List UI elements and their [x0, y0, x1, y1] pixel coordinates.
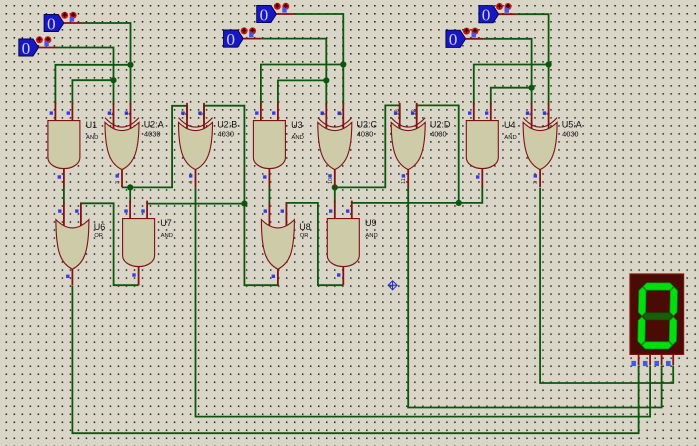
svg-text:U2:B: U2:B: [217, 120, 237, 130]
XOR gate U2:C (4030): [318, 103, 352, 187]
wire branch net C to U3.in1: [261, 65, 343, 105]
pin markers U9: [329, 209, 349, 276]
svg-text:2: 2: [108, 112, 114, 115]
pin markers U5:A: [526, 111, 546, 177]
svg-text:0: 0: [482, 6, 491, 25]
svg-text:U1: U1: [86, 120, 98, 130]
svg-text:8: 8: [338, 112, 344, 115]
svg-text:10: 10: [328, 178, 334, 184]
svg-text:AND: AND: [504, 135, 516, 141]
svg-text:4030: 4030: [218, 130, 234, 139]
logic input I5 (state 0) with toggle buttons: [479, 3, 517, 25]
AND gate U1: [48, 103, 80, 188]
wire branch U2:C output down to U9.in1: [334, 187, 336, 202]
junction net C: [340, 61, 346, 67]
pin markers U2:D: [394, 111, 414, 177]
svg-text:0: 0: [47, 14, 56, 33]
AND gate U4: [466, 103, 498, 188]
svg-text:U2:D: U2:D: [430, 120, 451, 130]
svg-text:U5:A: U5:A: [562, 120, 582, 130]
svg-text:4: 4: [189, 181, 195, 184]
junction U4 output net: [456, 200, 462, 206]
wire U2:C output to U2:D.in1: [335, 105, 400, 187]
wire U3 output to U8.in1: [268, 187, 270, 205]
svg-text:12: 12: [412, 109, 418, 115]
junction net A: [127, 62, 133, 68]
pin markers U4: [468, 111, 488, 178]
pin numbers 2,1,3 of U5:A: [526, 112, 549, 184]
display pins: [639, 354, 674, 365]
junction U2:A output: [127, 184, 133, 190]
junction net E: [546, 61, 552, 67]
svg-text:1: 1: [125, 112, 131, 115]
wire net E (input to U4 and U5:A): [517, 14, 549, 104]
wire branch U2:A output down to U7.in1: [129, 187, 131, 202]
wire U2:B output to display pin 2: [196, 187, 651, 416]
svg-text:AND: AND: [365, 233, 377, 239]
svg-text:4030: 4030: [430, 130, 446, 139]
AND gate U7: [123, 201, 155, 286]
pin numbers 2,1,3 of U2:A: [108, 112, 131, 184]
logic input I1 (state 0) with toggle buttons: [44, 12, 82, 34]
AND gate U3: [253, 103, 285, 188]
svg-text:U3: U3: [291, 120, 303, 130]
junction U2:C output: [332, 184, 338, 190]
pin markers U1: [50, 111, 70, 178]
pin markers U2:A: [108, 111, 128, 177]
svg-text:U2:C: U2:C: [357, 120, 378, 130]
svg-text:0: 0: [260, 5, 269, 24]
XOR gate U2:D (4030): [391, 103, 425, 187]
wire branch net E to U4.in1: [474, 65, 549, 105]
wire U8 output to U2:B.in2: [204, 106, 278, 286]
wire U1 output to U6.in1: [63, 187, 65, 205]
svg-text:AND: AND: [86, 135, 98, 141]
wire net D (input to U3 and U2:C): [261, 39, 326, 105]
wire branch U8 net to U7.in2: [147, 203, 244, 205]
wire U7 output to U6.in2: [81, 203, 139, 285]
wire net A (input bit A to U1 and U2:A): [82, 23, 131, 105]
AND gate U9: [327, 201, 359, 286]
pin markers U6: [58, 209, 78, 278]
wire U2:A output to U2:B.in1: [122, 106, 187, 188]
junction U8 output net: [241, 201, 247, 207]
display pin markers: [631, 361, 670, 366]
pin markers U7: [124, 209, 144, 276]
svg-text:AND: AND: [161, 233, 173, 239]
pin markers U2:C: [321, 111, 341, 177]
wire branch net A to U1.in1: [55, 65, 130, 105]
junction net D: [323, 77, 329, 83]
pin numbers 9,8,10 of U2:C: [321, 112, 344, 184]
svg-text:U6: U6: [94, 222, 106, 232]
svg-text:4030: 4030: [562, 130, 578, 139]
OR gate U6: [56, 203, 89, 286]
wire net B (input bit B to U1 and U2:A): [57, 48, 114, 105]
svg-text:U7: U7: [160, 218, 172, 228]
pin markers U2:B: [181, 111, 201, 177]
svg-text:4030: 4030: [144, 130, 160, 139]
logic input I6 (state 0) with toggle buttons: [446, 28, 484, 49]
svg-text:0: 0: [22, 39, 31, 58]
7-segment display showing 0: [630, 274, 684, 354]
svg-text:OR: OR: [94, 233, 103, 239]
svg-text:U9: U9: [365, 218, 377, 228]
svg-text:U4: U4: [504, 120, 516, 130]
wire U5:A output to display pin 4: [540, 188, 673, 383]
logic input I3 (state 0) with toggle buttons: [257, 3, 295, 25]
wire U2:D output to display pin 3: [408, 187, 661, 407]
svg-text:4030: 4030: [357, 130, 373, 139]
svg-text:1: 1: [543, 112, 549, 115]
svg-text:2: 2: [526, 112, 532, 115]
svg-text:OR: OR: [300, 233, 309, 239]
XOR gate U2:B (4030): [179, 103, 213, 187]
wire U4 output to U9.in2 and U2:D.in2: [352, 187, 483, 204]
wire branch net B to U1.in2: [72, 80, 113, 104]
wire branch U4 net up to U2:D.in2: [417, 105, 459, 202]
pin markers U8: [264, 209, 284, 278]
svg-text:5: 5: [182, 112, 188, 115]
svg-text:0: 0: [226, 30, 235, 49]
junction net B: [110, 77, 116, 83]
wire U9 output to U8.in2: [286, 203, 343, 285]
logic input I2 (state 0) with toggle buttons: [19, 36, 57, 58]
pin numbers 5,6,4 of U2:B: [182, 112, 205, 184]
svg-text:U8: U8: [299, 222, 311, 232]
pin numbers 13,12,11 of U2:D: [395, 109, 418, 184]
svg-text:3: 3: [533, 181, 539, 184]
svg-text:13: 13: [395, 109, 401, 115]
svg-text:AND: AND: [291, 135, 303, 141]
junction net F: [529, 85, 535, 91]
wire net C (input to U3 and U2:C): [294, 14, 343, 105]
wire branch net D to U3.in2: [278, 80, 326, 104]
svg-text:3: 3: [115, 181, 121, 184]
svg-text:11: 11: [401, 178, 407, 184]
wire U6 output to display pin 1: [72, 286, 638, 433]
svg-text:9: 9: [321, 112, 327, 115]
wire net F (input to U4 and U5:A): [484, 39, 532, 105]
svg-text:U2:A: U2:A: [144, 120, 164, 130]
wire branch net F to U4.in2: [491, 88, 532, 105]
svg-text:6: 6: [199, 112, 205, 115]
svg-text:0: 0: [449, 30, 458, 49]
XOR gate U5:A (4030): [523, 103, 557, 187]
origin marker: [388, 281, 397, 290]
pin markers U3: [255, 111, 275, 178]
XOR gate U2:A (4030): [105, 103, 139, 187]
logic input I4 (state 0) with toggle buttons: [224, 27, 262, 49]
OR gate U8: [261, 203, 294, 286]
